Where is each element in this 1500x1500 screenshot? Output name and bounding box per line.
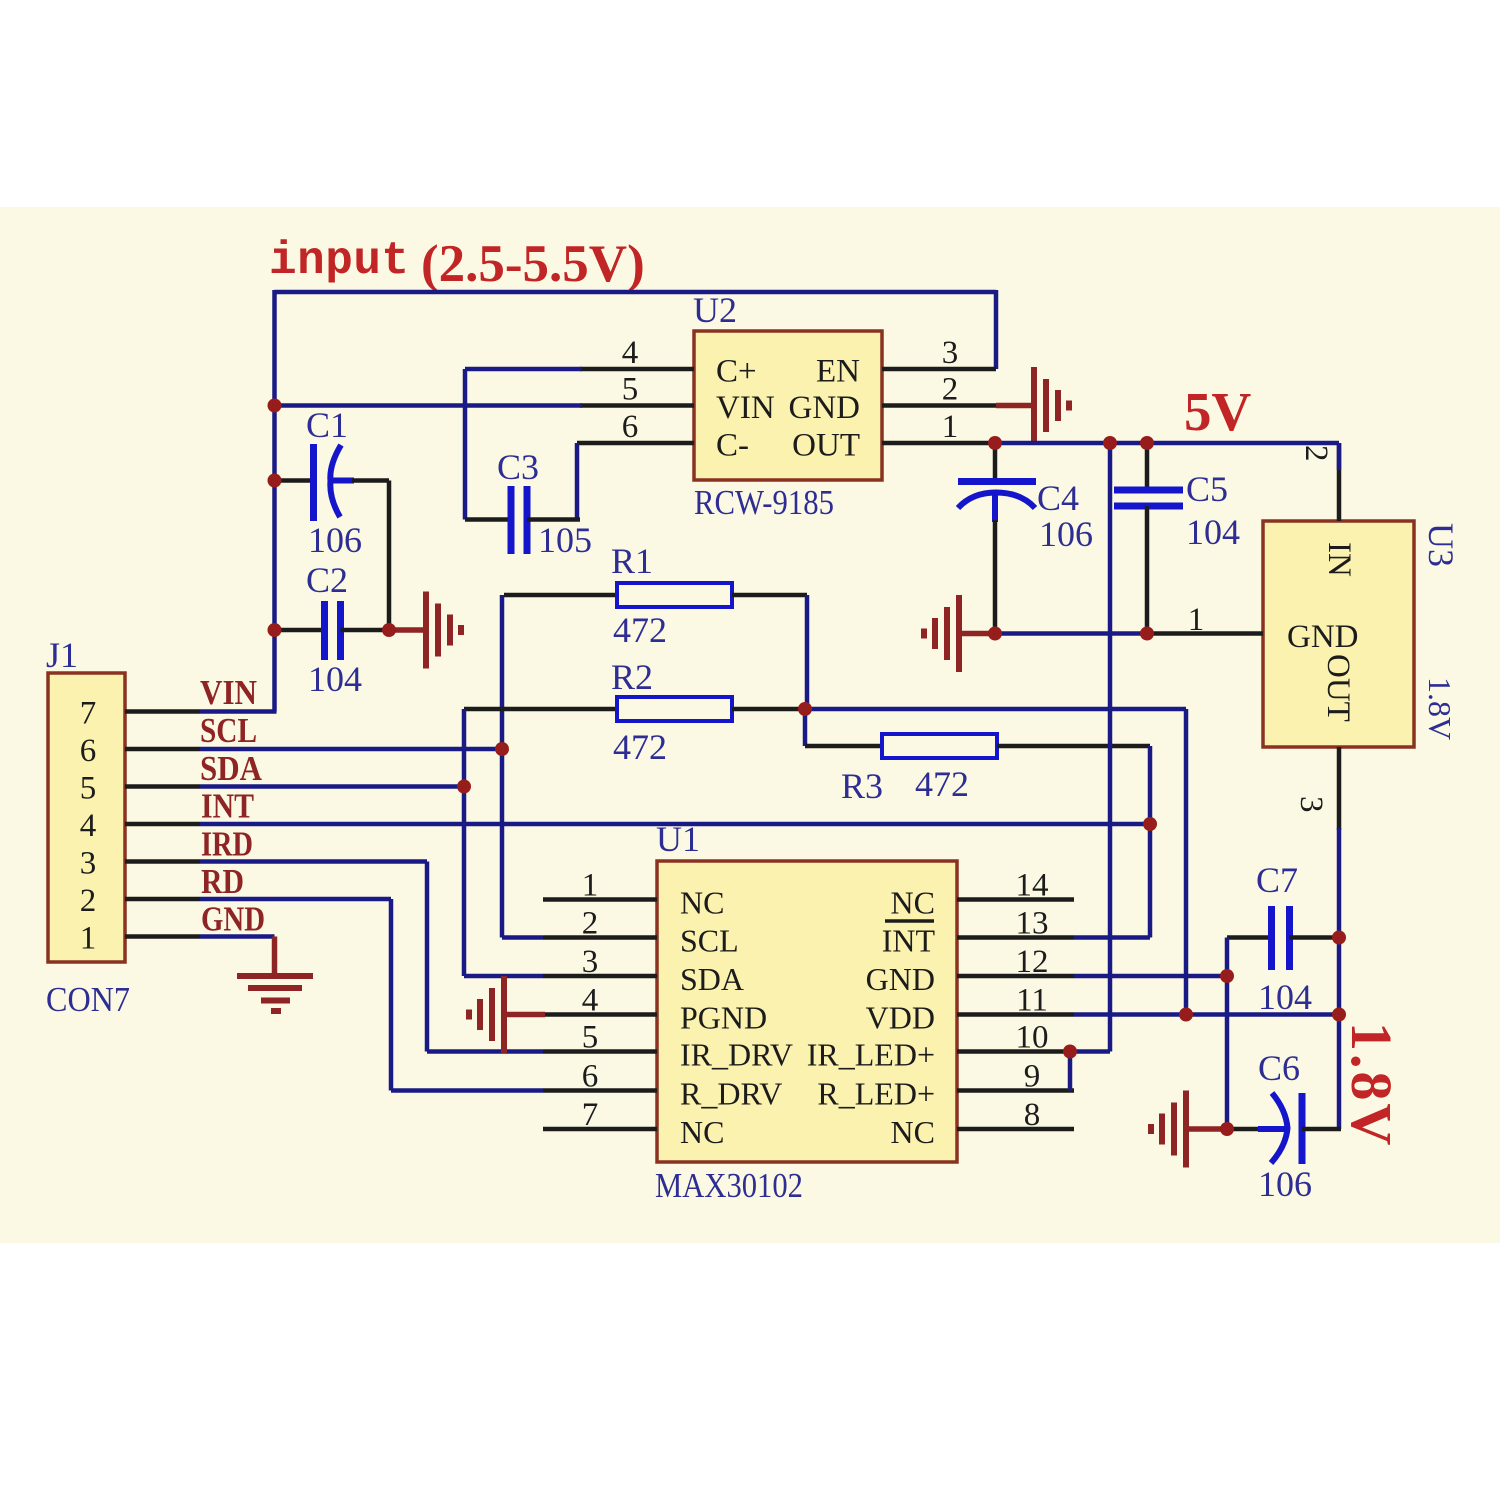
svg-text:C2: C2 <box>306 560 348 600</box>
U1 pin 7 stub <box>543 1127 657 1132</box>
svg-text:5V: 5V <box>1184 381 1252 442</box>
net label SCL <box>200 711 257 750</box>
U1 designator label <box>656 819 700 859</box>
U2 pin 3 stub <box>882 367 996 372</box>
wire R3 INT vertical <box>1148 746 1153 938</box>
capacitor C1 curved plate <box>330 445 341 517</box>
U2 pin number 1 <box>942 409 959 445</box>
wire INT to U1 pin13 <box>1074 935 1150 940</box>
U1 pin name INT pin 13 <box>882 923 936 959</box>
U1 pin name R_DRV pin 6 <box>680 1076 782 1112</box>
ground symbol C4 left <box>924 595 959 672</box>
U1 box <box>657 861 957 1162</box>
J1 pin number 3 <box>80 846 97 882</box>
U2 pin number 3 <box>942 335 959 371</box>
ground PGND red stub <box>504 1012 545 1018</box>
svg-text:3: 3 <box>582 944 599 980</box>
capacitor C4 blue stub <box>992 493 998 522</box>
wire 1.8V vertical <box>1337 828 1342 1129</box>
J1 pin 2 stub <box>125 897 200 902</box>
U1 pin number 3 <box>582 944 599 980</box>
svg-text:SDA: SDA <box>200 749 263 788</box>
svg-text:GND: GND <box>201 900 265 939</box>
capacitor C7 left plate <box>1268 906 1275 970</box>
svg-text:C4: C4 <box>1037 478 1079 518</box>
resistor R3 right lead <box>997 744 1150 749</box>
resistor R3 body <box>882 734 997 758</box>
U1 pin name IR_LED+ pin 10 <box>807 1037 935 1073</box>
svg-text:J1: J1 <box>46 635 78 675</box>
ground symbol C2 <box>426 592 461 669</box>
capacitor C6 left lead <box>1227 1127 1260 1132</box>
svg-text:106: 106 <box>308 520 362 560</box>
svg-text:R3: R3 <box>841 766 883 806</box>
U1 pin 5 stub <box>543 1049 657 1054</box>
U1 pin name SDA pin 3 <box>680 961 744 997</box>
U3 pin number 1 <box>1188 602 1205 638</box>
capacitor C1 label <box>306 405 348 445</box>
resistor R3 label <box>841 766 883 806</box>
U1 pin number 9 <box>1024 1059 1041 1095</box>
ground J1 red vertical <box>272 937 278 977</box>
resistor R1 body <box>617 583 732 607</box>
resistor R2 left lead <box>464 707 617 712</box>
svg-text:3: 3 <box>942 335 959 371</box>
U1 pin number 12 <box>1016 944 1049 980</box>
U1 pin 1 stub <box>543 897 657 902</box>
capacitor C6 label <box>1258 1048 1300 1088</box>
capacitor C5 bottom plate <box>1114 503 1183 510</box>
U1 pin 11 stub <box>957 1012 1074 1017</box>
wire input rail left vertical <box>272 290 277 712</box>
net label 5V <box>1184 381 1252 442</box>
wire C- vertical from C3 <box>575 443 580 520</box>
U2 pin 1 stub <box>882 441 995 446</box>
U3 pin number 3 <box>1293 796 1329 813</box>
capacitor C3 right lead <box>527 517 580 522</box>
svg-text:2: 2 <box>1298 445 1334 462</box>
U2 designator label <box>693 290 737 330</box>
svg-text:C6: C6 <box>1258 1048 1300 1088</box>
resistor R2 right lead <box>732 707 805 712</box>
svg-text:U2: U2 <box>693 290 737 330</box>
svg-text:5: 5 <box>622 372 639 408</box>
U1 pin name GND pin 12 <box>866 961 935 997</box>
U3 pin name GND <box>1287 619 1359 655</box>
net label GND <box>201 900 265 939</box>
capacitor C7 label <box>1256 860 1298 900</box>
svg-text:OUT: OUT <box>792 428 860 464</box>
J1 pin 7 stub <box>125 709 200 714</box>
wire C1-C2 right vertical <box>387 481 392 631</box>
wire GND12 to C7 corner vertical <box>1225 938 1230 1130</box>
capacitor C6 right lead <box>1302 1127 1341 1132</box>
wire RD vertical <box>389 899 394 1091</box>
capacitor C3 left lead <box>465 517 511 522</box>
capacitor C6 right plate <box>1299 1093 1306 1164</box>
svg-text:2: 2 <box>582 906 599 942</box>
wire 5V rail <box>995 441 1339 446</box>
resistor R1 label <box>611 541 653 581</box>
J1 pin number 6 <box>80 733 97 769</box>
capacitor C7 right plate <box>1286 906 1293 970</box>
U1 INT overbar <box>885 919 934 923</box>
svg-text:13: 13 <box>1016 906 1049 942</box>
U1 pin number 13 <box>1016 906 1049 942</box>
U1 pin name VDD pin 11 <box>866 1000 935 1036</box>
svg-text:1: 1 <box>80 921 97 957</box>
ground U2 pin2 red stub <box>996 403 1034 409</box>
svg-text:2: 2 <box>942 372 959 408</box>
svg-text:3: 3 <box>80 846 97 882</box>
J1 pin 4 stub <box>125 822 200 827</box>
capacitor C6 blue stub <box>1258 1126 1288 1132</box>
U1 pin number 5 <box>582 1020 599 1056</box>
wire pullup rail to VDD <box>805 707 1186 712</box>
svg-text:GND: GND <box>866 961 935 997</box>
capacitor C4 top lead <box>993 443 998 482</box>
wire INT from J1 <box>200 822 1150 827</box>
U1 pin number 11 <box>1016 983 1048 1019</box>
svg-text:R1: R1 <box>611 541 653 581</box>
U3 box <box>1263 521 1414 747</box>
svg-text:IR_DRV: IR_DRV <box>680 1037 793 1073</box>
svg-text:104: 104 <box>308 659 362 699</box>
capacitor C1 right lead <box>352 478 389 483</box>
svg-text:472: 472 <box>613 610 667 650</box>
svg-text:U1: U1 <box>656 819 700 859</box>
capacitor C2 right plate <box>337 601 344 660</box>
U1 pin 8 stub <box>957 1127 1074 1132</box>
ground C4 red stub <box>959 631 995 637</box>
svg-text:EN: EN <box>816 354 860 390</box>
wire IR_LED junction to vertical <box>1070 1049 1110 1054</box>
J1 part CON7 <box>46 980 130 1019</box>
capacitor C4 value 106 <box>1039 514 1093 554</box>
capacitor C6 curved plate <box>1271 1093 1288 1163</box>
svg-text:MAX30102: MAX30102 <box>655 1166 803 1205</box>
U2 pin name C+ <box>716 354 757 390</box>
U2 pin name OUT <box>792 428 860 464</box>
svg-text:12: 12 <box>1016 944 1049 980</box>
svg-text:11: 11 <box>1016 983 1048 1019</box>
U2 pin number 4 <box>622 335 639 371</box>
wire GND from J1 <box>200 934 275 939</box>
svg-text:1.8V: 1.8V <box>1339 1022 1404 1148</box>
svg-text:6: 6 <box>582 1059 599 1095</box>
U2 pin number 6 <box>622 409 639 445</box>
U2 part number RCW-9185 <box>694 483 834 522</box>
wire SCL to U1 pin2 <box>502 935 543 940</box>
U1 pin 6 stub <box>543 1088 657 1093</box>
U2 pin 4 stub <box>580 367 694 372</box>
U2 pin number 5 <box>622 372 639 408</box>
wire GND rail <box>995 631 1147 636</box>
wire SDA pullup vertical <box>462 709 467 976</box>
J1 pin number 5 <box>80 771 97 807</box>
U1 pin 14 stub <box>957 897 1074 902</box>
U1 pin 3 stub <box>543 974 657 979</box>
U1 pin 12 stub <box>957 974 1074 979</box>
svg-text:6: 6 <box>622 409 639 445</box>
capacitor C3 label <box>497 447 539 487</box>
svg-text:IR_LED+: IR_LED+ <box>807 1037 935 1073</box>
svg-text:VIN: VIN <box>200 673 257 712</box>
wire EN vertical <box>994 290 999 369</box>
wire IRD vertical <box>425 862 430 1052</box>
capacitor C7 right lead <box>1290 935 1340 940</box>
capacitor C3 right plate <box>524 486 531 554</box>
svg-text:SCL: SCL <box>680 923 739 959</box>
svg-text:4: 4 <box>582 983 599 1019</box>
wire C+ horizontal <box>465 367 582 372</box>
wire VDD horizontal <box>1074 1012 1339 1017</box>
svg-text:U3: U3 <box>1421 523 1461 567</box>
capacitor C3 value 105 <box>538 520 592 560</box>
wire SCL pullup vertical <box>500 595 505 938</box>
U2 pin name VIN <box>716 390 775 426</box>
svg-text:GND: GND <box>1287 619 1359 655</box>
wire VIN from J1 <box>200 709 277 714</box>
wire IRD from J1 <box>200 859 427 864</box>
wire 5V corner to U3 <box>1337 443 1342 470</box>
U1 pin number 1 <box>582 868 599 904</box>
svg-text:104: 104 <box>1186 512 1240 552</box>
svg-text:RCW-9185: RCW-9185 <box>694 483 834 522</box>
svg-text:IRD: IRD <box>201 825 253 864</box>
U2 pin 5 stub <box>580 403 694 408</box>
wire RD to U1 pin6 <box>391 1088 543 1093</box>
resistor R2 label <box>611 657 653 697</box>
wire C+ vertical to C3 <box>463 369 468 520</box>
wire IR_LED to R_LED jog <box>1068 1052 1073 1091</box>
net label RD <box>201 862 244 901</box>
U1 part MAX30102 <box>655 1166 803 1205</box>
U1 pin number 8 <box>1024 1097 1041 1133</box>
U1 pin name NC pin 14 <box>891 885 935 921</box>
svg-text:4: 4 <box>622 335 639 371</box>
U3 pin 1 stub <box>1147 631 1263 636</box>
svg-text:1.8V: 1.8V <box>1422 677 1458 740</box>
U1 pin number 2 <box>582 906 599 942</box>
svg-text:1: 1 <box>582 868 599 904</box>
svg-text:(2.5-5.5V): (2.5-5.5V) <box>421 235 645 293</box>
U2 pin 6 stub <box>577 441 694 446</box>
svg-text:RD: RD <box>201 862 244 901</box>
capacitor C1 left plate <box>310 444 317 521</box>
J1 pin number 2 <box>80 883 97 919</box>
U3 designator label <box>1421 523 1461 567</box>
svg-text:5: 5 <box>582 1020 599 1056</box>
svg-text:SDA: SDA <box>680 961 744 997</box>
resistor R1 value 472 <box>613 610 667 650</box>
U1 pin name SCL pin 2 <box>680 923 739 959</box>
U2 pin name EN <box>816 354 860 390</box>
capacitor C4 top plate <box>958 478 1036 485</box>
capacitor C7 value 104 <box>1258 977 1312 1017</box>
wire GND12 horizontal <box>1074 974 1227 979</box>
title text input <box>269 235 410 287</box>
wire SDA to U1 pin3 <box>464 974 543 979</box>
svg-text:7: 7 <box>582 1097 599 1133</box>
svg-text:4: 4 <box>80 808 97 844</box>
svg-text:14: 14 <box>1016 868 1049 904</box>
svg-text:NC: NC <box>680 885 724 921</box>
U1 pin number 14 <box>1016 868 1049 904</box>
svg-text:PGND: PGND <box>680 1000 767 1036</box>
wire VIN to U2 <box>275 403 583 408</box>
U1 pin number 7 <box>582 1097 599 1133</box>
ground C6 red stub <box>1186 1126 1227 1132</box>
U3 pin 2 stub <box>1337 443 1342 521</box>
J1 pin 5 stub <box>125 784 200 789</box>
svg-text:NC: NC <box>680 1114 724 1150</box>
U2 pin name GND <box>789 390 861 426</box>
svg-text:input: input <box>269 235 410 287</box>
capacitor C2 left lead <box>275 628 325 633</box>
svg-text:VDD: VDD <box>866 1000 935 1036</box>
svg-text:106: 106 <box>1039 514 1093 554</box>
J1 designator label <box>46 635 78 675</box>
svg-text:7: 7 <box>80 696 97 732</box>
svg-text:R_DRV: R_DRV <box>680 1076 782 1112</box>
U1 pin name NC pin 8 <box>891 1114 935 1150</box>
svg-text:R_LED+: R_LED+ <box>817 1076 935 1112</box>
capacitor C1 left lead <box>275 478 314 483</box>
svg-text:C-: C- <box>716 428 749 464</box>
J1 box <box>48 673 125 962</box>
U3 part 1.8V <box>1422 677 1458 740</box>
svg-text:1: 1 <box>1188 602 1205 638</box>
svg-text:INT: INT <box>201 787 254 826</box>
capacitor C5 top plate <box>1114 487 1183 494</box>
svg-text:VIN: VIN <box>716 390 775 426</box>
U1 pin 13 stub <box>957 935 1074 940</box>
J1 pin number 1 <box>80 921 97 957</box>
J1 pin 1 stub <box>125 934 200 939</box>
J1 pin number 7 <box>80 696 97 732</box>
net label VIN <box>200 673 257 712</box>
svg-text:472: 472 <box>613 727 667 767</box>
resistor R1 right lead <box>732 593 807 598</box>
ground symbol J1 earth <box>237 976 313 1011</box>
svg-text:104: 104 <box>1258 977 1312 1017</box>
capacitor C1 value 106 <box>308 520 362 560</box>
ground symbol C6 <box>1151 1091 1186 1168</box>
svg-text:SCL: SCL <box>200 711 257 750</box>
capacitor C5 bottom lead <box>1145 506 1150 634</box>
resistor R1 left lead <box>504 593 617 598</box>
capacitor C4 bottom lead <box>993 520 998 634</box>
U1 pin 10 stub <box>957 1049 1074 1054</box>
wire 5V to IR_LED vertical <box>1108 443 1113 1052</box>
resistor R2 body <box>617 697 732 721</box>
resistor R2 value 472 <box>613 727 667 767</box>
capacitor C5 label <box>1186 469 1228 509</box>
wire IRD to U1 pin5 <box>427 1049 543 1054</box>
svg-text:GND: GND <box>789 390 861 426</box>
U1 pin number 10 <box>1016 1020 1049 1056</box>
svg-text:C1: C1 <box>306 405 348 445</box>
capacitor C2 value 104 <box>308 659 362 699</box>
wire RD from J1 <box>200 897 391 902</box>
U2 pin 2 stub <box>882 403 996 408</box>
capacitor C1 right stub blue <box>331 478 354 484</box>
U1 pin name NC pin 1 <box>680 885 724 921</box>
svg-text:472: 472 <box>915 764 969 804</box>
svg-text:9: 9 <box>1024 1059 1041 1095</box>
U2 box <box>694 331 882 480</box>
svg-text:CON7: CON7 <box>46 980 130 1019</box>
U1 pin name R_LED+ pin 9 <box>817 1076 935 1112</box>
J1 pin 6 stub <box>125 747 200 752</box>
ground C2 red stub <box>389 627 426 633</box>
ground symbol U2 pin2 <box>1034 367 1069 444</box>
capacitor C5 value 104 <box>1186 512 1240 552</box>
U1 pin name IR_DRV pin 5 <box>680 1037 793 1073</box>
net label IRD <box>201 825 253 864</box>
svg-text:3: 3 <box>1293 796 1329 813</box>
svg-text:C5: C5 <box>1186 469 1228 509</box>
wire pullup rail vertical <box>1184 709 1189 1015</box>
U3 pin name IN <box>1321 542 1357 577</box>
U1 pin name NC pin 7 <box>680 1114 724 1150</box>
capacitor C2 label <box>306 560 348 600</box>
svg-text:1: 1 <box>942 409 959 445</box>
U1 pin number 6 <box>582 1059 599 1095</box>
capacitor C5 top lead <box>1145 443 1150 490</box>
wire SCL from J1 <box>200 747 502 752</box>
svg-text:106: 106 <box>1258 1164 1312 1204</box>
U3 pin number 2 <box>1298 445 1334 462</box>
capacitor C4 label <box>1037 478 1079 518</box>
svg-text:5: 5 <box>80 771 97 807</box>
U2 pin name C- <box>716 428 749 464</box>
wire pullup junction to R3 <box>803 709 808 746</box>
svg-text:105: 105 <box>538 520 592 560</box>
svg-text:10: 10 <box>1016 1020 1049 1056</box>
capacitor C6 value 106 <box>1258 1164 1312 1204</box>
svg-text:NC: NC <box>891 885 935 921</box>
svg-text:C+: C+ <box>716 354 757 390</box>
capacitor C4 curved plate <box>958 493 1035 509</box>
net label 1.8V red <box>1339 1022 1404 1148</box>
U1 pin name PGND pin 4 <box>680 1000 767 1036</box>
U1 pin number 4 <box>582 983 599 1019</box>
wire R1 right vertical <box>805 595 810 709</box>
capacitor C2 right lead <box>341 628 390 633</box>
J1 pin 3 stub <box>125 859 200 864</box>
resistor R3 left lead <box>805 744 882 749</box>
capacitor C7 left lead <box>1227 935 1272 940</box>
net label SDA <box>200 749 263 788</box>
svg-text:8: 8 <box>1024 1097 1041 1133</box>
svg-text:OUT: OUT <box>1320 654 1356 722</box>
svg-text:NC: NC <box>891 1114 935 1150</box>
svg-text:R2: R2 <box>611 657 653 697</box>
title text (2.5-5.5V) <box>421 235 645 293</box>
U3 pin 3 stub <box>1337 747 1342 830</box>
U1 pin 9 stub <box>957 1088 1074 1093</box>
U2 pin number 2 <box>942 372 959 408</box>
svg-text:INT: INT <box>882 923 936 959</box>
svg-text:6: 6 <box>80 733 97 769</box>
U1 pin 2 stub <box>543 935 657 940</box>
svg-text:C7: C7 <box>1256 860 1298 900</box>
U1 pin 4 stub <box>543 1012 657 1017</box>
svg-text:2: 2 <box>80 883 97 919</box>
wire input rail top <box>275 290 997 295</box>
